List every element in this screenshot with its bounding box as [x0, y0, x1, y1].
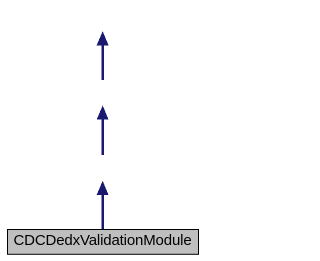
arrow 2 (middle) head: [97, 106, 109, 120]
inheritance diagram: [0, 0, 205, 261]
class box CDCDedxValidationModule: [8, 230, 199, 255]
arrow 3 (bottom) head: [97, 181, 109, 195]
arrow 1 (top) head: [97, 31, 109, 45]
arrow 1 shaft: [102, 45, 104, 80]
arrow 2 shaft: [102, 119, 104, 155]
arrow 3 shaft: [102, 195, 104, 229]
class box label: [0, 233, 205, 248]
